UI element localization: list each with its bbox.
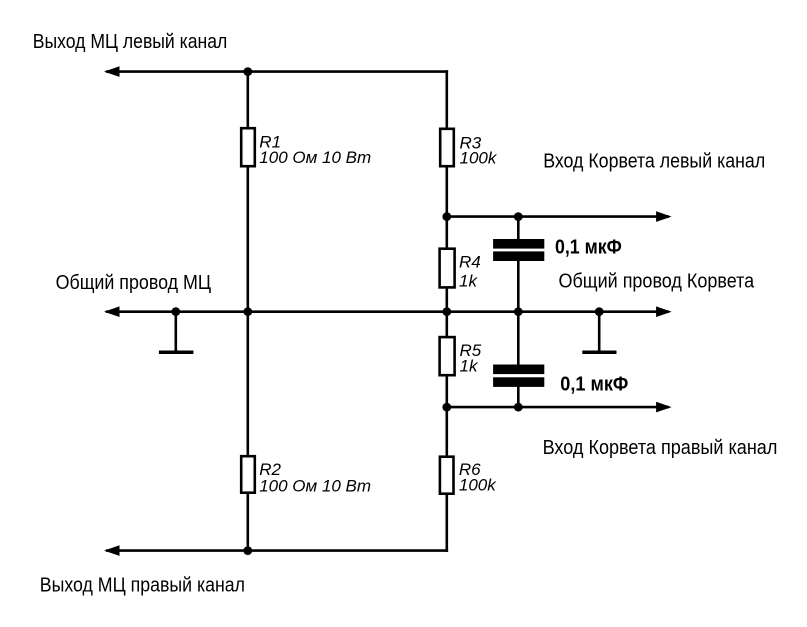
svg-text:R4: R4 — [459, 253, 481, 272]
junction dot: bottom wire / R2 branch — [243, 546, 252, 555]
junction dot: right input / C2 branch — [514, 403, 523, 412]
junction dot: middle wire / GND1 — [171, 307, 180, 316]
arrow: bottom wire left — [104, 545, 120, 556]
svg-text:100k: 100k — [459, 476, 497, 495]
wire: left vertical branch (R1/R2 column) — [247, 72, 250, 551]
wire: capacitor branch C1 bottom to middle wire — [517, 260, 520, 312]
arrow: right input wire right — [656, 402, 672, 413]
svg-text:100 Ом 10 Вт: 100 Ом 10 Вт — [259, 477, 371, 496]
ground GND2 stub (right) — [598, 312, 601, 351]
svg-text:100 Ом 10 Вт: 100 Ом 10 Вт — [259, 148, 371, 167]
svg-text:100k: 100k — [460, 149, 498, 168]
junction dot: middle wire / capacitor branch — [514, 307, 523, 316]
capacitor C2 bottom plate — [493, 377, 544, 387]
resistor R4 body — [440, 249, 455, 288]
svg-text:Общий провод Корвета: Общий провод Корвета — [559, 271, 755, 293]
svg-text:Вход Корвета левый канал: Вход Корвета левый канал — [543, 151, 765, 173]
resistor R2 body — [241, 456, 255, 493]
wire: capacitor branch C2 bottom to input wire — [517, 386, 520, 408]
ground GND2 bar (right) — [582, 351, 616, 355]
svg-text:0,1 мкФ: 0,1 мкФ — [555, 236, 622, 258]
junction dot: middle wire / right branch — [442, 307, 451, 316]
capacitor C1 top plate — [493, 239, 544, 249]
wire: top horizontal (Выход МЦ левый канал) — [106, 70, 448, 73]
resistor R6 body — [440, 457, 454, 494]
wire: right channel input (Вход Корвета правый канал) — [447, 406, 669, 409]
wire: bottom horizontal (Выход МЦ правый канал) — [106, 549, 448, 552]
junction dot: middle wire / left branch — [243, 307, 252, 316]
junction dot: left input / C1 branch — [514, 212, 523, 221]
svg-text:Выход МЦ правый канал: Выход МЦ правый канал — [40, 575, 245, 597]
wire: capacitor branch upper stub (C1 top) — [517, 217, 520, 240]
svg-text:1k: 1k — [460, 356, 479, 375]
wire: left channel input (Вход Корвета левый канал) — [447, 215, 669, 218]
svg-text:Вход Корвета правый канал: Вход Корвета правый канал — [543, 437, 778, 459]
arrow: middle wire right — [656, 306, 672, 317]
capacitor C2 top plate — [493, 365, 544, 375]
arrow: middle wire left — [104, 306, 120, 317]
junction dot: right input / R5-R6 node — [442, 403, 451, 412]
junction dot: top wire / R1 branch — [243, 67, 252, 76]
arrow: top wire left — [104, 66, 120, 77]
svg-text:0,1 мкФ: 0,1 мкФ — [560, 373, 628, 395]
wire: right vertical branch (R3..R6 column) — [445, 70, 448, 552]
wire: middle horizontal (Общий провод) — [106, 310, 669, 313]
junction dot: middle wire / GND2 — [595, 307, 604, 316]
capacitor C1 bottom plate — [493, 251, 544, 261]
resistor R5 body — [440, 337, 455, 375]
ground GND1 stub (left) — [175, 312, 178, 351]
svg-text:Выход МЦ левый канал: Выход МЦ левый канал — [33, 31, 228, 53]
svg-text:Общий провод МЦ: Общий провод МЦ — [56, 272, 212, 294]
junction dot: left input / R3-R4 node — [442, 212, 451, 221]
ground GND1 bar (left) — [159, 351, 194, 355]
svg-text:1k: 1k — [459, 272, 478, 291]
arrow: left input wire right — [656, 211, 672, 222]
resistor R1 body — [241, 128, 255, 166]
wire: capacitor branch middle wire to C2 top — [517, 312, 520, 366]
resistor R3 body — [440, 129, 454, 166]
